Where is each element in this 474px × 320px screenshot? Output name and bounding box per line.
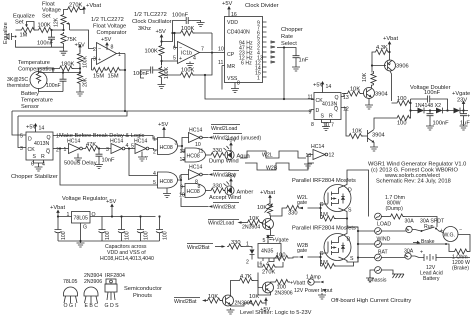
svg-text:1M: 1M: [20, 33, 28, 39]
brake contact: [445, 243, 447, 245]
Q6 collector up to 4.7K: [231, 281, 239, 297]
svg-text:100: 100: [397, 96, 407, 102]
resistor R12 100K left vertical: [145, 42, 165, 61]
svg-text:+5V: +5V: [101, 37, 111, 43]
resistor R25 1M gate-source 2: [320, 257, 354, 269]
+5V arrow gates: [158, 122, 168, 135]
svg-text:23V: 23V: [457, 98, 467, 104]
wire output: [105, 54, 126, 112]
svg-text:10K: 10K: [362, 72, 368, 82]
svg-text:+5V: +5V: [158, 122, 168, 128]
svg-text:12V Power Input: 12V Power Input: [294, 288, 333, 294]
ground Q3: [370, 145, 378, 151]
svg-text:S: S: [348, 208, 352, 214]
svg-text:Brake: Brake: [421, 239, 435, 245]
resistor R7 15M: [106, 67, 122, 72]
select arrows: [271, 41, 275, 63]
svg-text:+5V: +5V: [226, 174, 236, 180]
ground: [322, 125, 330, 131]
svg-text:100: 100: [125, 231, 131, 240]
svg-text:R: R: [329, 114, 333, 120]
svg-text:+: +: [420, 250, 423, 256]
svg-text:gate: gate: [297, 248, 307, 254]
svg-text:Comparator: Comparator: [97, 30, 127, 36]
svg-text:7: 7: [201, 47, 204, 53]
wire Q out: [53, 136, 158, 140]
capacitor C6 100nF top: [411, 90, 448, 111]
svg-text:Battery: Battery: [423, 276, 440, 282]
IC U3b 4013N: [314, 93, 341, 120]
resistor R20 10K: [348, 129, 364, 139]
wire Q into gate: [154, 138, 158, 140]
svg-text:6: 6: [31, 162, 34, 168]
inverter U4c HC14: [131, 139, 149, 163]
svg-text:+Vgate: +Vgate: [272, 238, 289, 244]
svg-text:3: 3: [93, 57, 96, 63]
resistor R13 100K bottom vertical: [159, 66, 170, 79]
resistor R11 100K top: [179, 30, 195, 35]
inverter U4a HC14: [64, 139, 83, 154]
svg-text:3904: 3904: [375, 92, 388, 98]
+Vbat arrow: [50, 205, 65, 218]
svg-text:IC1b: IC1b: [181, 51, 192, 57]
svg-text:Battery: Battery: [21, 91, 39, 97]
svg-text:100nF: 100nF: [424, 90, 441, 96]
wire base/emitter: [362, 136, 375, 145]
ground 1nF: [292, 65, 300, 71]
+5V arrow LED: [226, 138, 236, 152]
svg-text:10K: 10K: [257, 205, 267, 211]
label Brake: [413, 239, 435, 245]
op-amp U1a: [93, 43, 121, 65]
node doubler left: [410, 99, 412, 118]
thermistor TH1: [30, 68, 63, 92]
connector J2 dump: [375, 213, 382, 220]
svg-text:3: 3: [175, 141, 178, 147]
svg-text:8: 8: [198, 184, 201, 190]
wire WIND to brake contact: [358, 243, 445, 245]
+5V arrow opamp: [101, 37, 111, 50]
resistor R17 10K base: [346, 87, 362, 97]
svg-text:4.3K: 4.3K: [376, 45, 388, 51]
node: [160, 60, 162, 62]
resistor R21 47K: [83, 142, 100, 151]
capacitor C14 100: [156, 217, 169, 242]
resistor R4 270K: [66, 7, 82, 12]
svg-text:78L05: 78L05: [63, 279, 78, 285]
wire node: [51, 29, 64, 31]
svg-text:7: 7: [331, 123, 334, 129]
ground Q2: [365, 103, 373, 109]
svg-text:1nF: 1nF: [299, 58, 309, 64]
svg-text:Rate: Rate: [281, 34, 293, 40]
svg-text:330: 330: [231, 240, 241, 246]
wire D in: [311, 110, 314, 112]
pin 5 +Vgate: [263, 235, 289, 245]
ground: [76, 90, 84, 96]
svg-text:14: 14: [39, 126, 45, 132]
svg-text:10K: 10K: [350, 87, 360, 93]
IC U6 78L05: [67, 212, 96, 231]
svg-text:+Vbat: +Vbat: [50, 205, 65, 211]
svg-text:100: 100: [397, 121, 407, 127]
wire: [53, 69, 80, 73]
svg-text:270K: 270K: [69, 3, 82, 9]
op-amp U1b: [173, 42, 204, 64]
gate inputs: [60, 149, 158, 186]
svg-text:3906: 3906: [396, 64, 409, 70]
capacitor C2 100nF: [60, 76, 67, 92]
svg-text:D: D: [28, 137, 32, 143]
+5V arrow bottom: [260, 298, 270, 314]
resistor R19 100 lower: [396, 115, 412, 126]
svg-text:Schematic Rev: 24 July, 2018: Schematic Rev: 24 July, 2018: [376, 179, 451, 185]
svg-text:4.7K: 4.7K: [240, 274, 252, 280]
svg-text:5: 5: [173, 56, 176, 62]
svg-text:Set: Set: [42, 14, 51, 20]
svg-text:100nF: 100nF: [172, 13, 189, 19]
U5c out wire: [178, 180, 186, 195]
svg-text:4: 4: [153, 171, 156, 177]
svg-text:+: +: [179, 56, 182, 62]
battery B1 12V: [419, 250, 470, 262]
svg-text:WIND: WIND: [377, 237, 391, 243]
pin 11 MR wire: [218, 60, 225, 90]
capacitor C10 100 electrolytic: [55, 225, 68, 241]
svg-text:1: 1: [67, 212, 70, 218]
resistor R2 100K: [37, 27, 53, 32]
fuse F2 30A: [358, 253, 419, 262]
ground: [35, 165, 43, 171]
diode D3: [454, 108, 469, 114]
svg-text:Q̅: Q̅: [334, 106, 338, 113]
svg-text:Clock Oscillator: Clock Oscillator: [132, 19, 172, 25]
svg-text:Chopper: Chopper: [281, 27, 303, 33]
wire lower fb: [162, 53, 315, 101]
svg-text:Chassis: Chassis: [368, 278, 387, 284]
Q5 emitter to +Vgate / collector down: [258, 273, 274, 296]
resistor R8 180K: [58, 66, 74, 71]
svg-text:D: D: [347, 237, 351, 243]
svg-text:1/2 TLC2272: 1/2 TLC2272: [134, 12, 167, 18]
svg-text:Sensor: Sensor: [21, 104, 39, 110]
svg-text:−: −: [179, 45, 182, 51]
svg-text:3: 3: [20, 146, 23, 152]
wire base: [372, 62, 392, 102]
svg-text:500uS Delay: 500uS Delay: [64, 161, 97, 167]
+5V arrow: [106, 199, 116, 217]
svg-text:W2L: W2L: [262, 153, 273, 159]
wires reg: [58, 217, 156, 242]
svg-text:100nF: 100nF: [37, 41, 54, 47]
svg-text:Select: Select: [281, 41, 297, 47]
transistor Q1 2N3906: [385, 60, 396, 71]
svg-text:(Brake): (Brake): [452, 266, 469, 272]
node: [98, 147, 100, 149]
svg-text:HC14: HC14: [189, 165, 202, 171]
svg-text:100: 100: [144, 231, 150, 240]
pin 8 VSS ground: [231, 81, 240, 93]
pins 6 4: [263, 258, 274, 262]
LED D4 Dump: [224, 146, 235, 160]
svg-text:Parallel IRF2804 Mosfets: Parallel IRF2804 Mosfets: [292, 178, 356, 184]
wire noninv input: [92, 59, 97, 71]
svg-text:LOAD: LOAD: [377, 222, 391, 228]
svg-text:7: 7: [145, 156, 148, 162]
label +Vbatt / 1 Amp fuse: [290, 275, 324, 287]
resistor R22 330: [206, 148, 226, 158]
ground: [77, 241, 85, 247]
pins S R to ground: [34, 160, 44, 165]
svg-text:16: 16: [231, 12, 237, 18]
svg-text:1N4148 X2: 1N4148 X2: [415, 103, 441, 109]
svg-text:HC14: HC14: [110, 139, 123, 145]
capacitor C3 100nF feedback: [173, 17, 202, 33]
svg-text:20K: 20K: [83, 77, 89, 87]
wire Q to R17: [341, 94, 346, 97]
svg-text:1: 1: [153, 137, 156, 143]
+5V arrow: [75, 43, 85, 53]
svg-text:100: 100: [105, 231, 111, 240]
inverter U4d HC14: [189, 128, 203, 149]
resistor R37 10K to +5V: [231, 298, 267, 307]
ground: [460, 124, 468, 130]
mosfet M1 IRF2804: [320, 185, 353, 214]
svg-text:Float Voltage: Float Voltage: [93, 24, 126, 30]
connector J1 equalize jack: [7, 33, 17, 40]
resistor R14 100K lower fb: [179, 72, 195, 77]
svg-text:+: +: [98, 57, 101, 63]
svg-text:Run: Run: [424, 224, 434, 230]
svg-text:11: 11: [198, 149, 203, 155]
capacitor C12 100: [118, 217, 131, 242]
svg-text:S: S: [321, 114, 325, 120]
inverter U4e HC14: [189, 165, 203, 186]
svg-text:gate: gate: [297, 200, 307, 206]
svg-text:+Vbat: +Vbat: [86, 3, 101, 9]
diode D2 1N4148: [436, 108, 454, 114]
IC U3a 4013N: [26, 132, 53, 160]
svg-text:Q: Q: [47, 135, 51, 141]
wire CK in: [311, 99, 314, 101]
waveform W2B: [245, 163, 314, 172]
waveform W2L: [240, 151, 306, 159]
svg-text:+: +: [440, 228, 443, 234]
svg-text:5: 5: [131, 144, 134, 150]
svg-text:10K: 10K: [208, 294, 218, 300]
svg-text:CD4040N: CD4040N: [227, 30, 250, 36]
capacitor C4 100nF bottom: [144, 67, 162, 74]
svg-text:HC14: HC14: [311, 144, 324, 150]
svg-text:HC08: HC08: [160, 179, 173, 185]
fuse F1 30A: [358, 226, 421, 232]
ground: [426, 124, 434, 130]
capacitor C7 100nF mid: [427, 111, 450, 127]
potentiometer R1 1M: [20, 22, 36, 33]
svg-text:100nF: 100nF: [133, 71, 150, 77]
transistor Q6 2N3904: [223, 295, 234, 306]
svg-text:30A: 30A: [404, 249, 414, 255]
resistor R24 1M gate-source: [320, 208, 347, 221]
ground rail: [58, 240, 160, 242]
svg-text:Chopper Stabilizer: Chopper Stabilizer: [11, 174, 58, 180]
svg-text:6 Hz: 6 Hz: [241, 61, 252, 67]
bus M1.S/M2.D node: [354, 227, 358, 262]
wire A comparator to D input: [12, 110, 311, 112]
label Wind2Bat arrow: [209, 171, 240, 179]
connector J3 LOAD: [375, 222, 392, 235]
svg-text:100K: 100K: [181, 68, 194, 74]
svg-text:100K: 100K: [164, 66, 170, 79]
svg-text:Level Shifter: Logic to 5-23V: Level Shifter: Logic to 5-23V: [240, 310, 312, 316]
svg-text:2: 2: [246, 260, 249, 266]
svg-text:CK: CK: [28, 147, 36, 153]
svg-text:1: 1: [118, 52, 121, 58]
svg-text:HC14: HC14: [189, 128, 202, 134]
transistor Q4 2N3904: [260, 219, 274, 230]
+5V arrow: [222, 1, 237, 18]
svg-text:O: O: [92, 212, 96, 218]
wire to opamp inv input: [70, 30, 95, 49]
wire B left drop to 4013 CK: [18, 116, 26, 148]
package TO-92 #1: [64, 287, 78, 303]
svg-text:Dump Wind: Dump Wind: [209, 159, 239, 165]
svg-text:10: 10: [179, 193, 185, 199]
AND gate U5a HC08: [153, 137, 178, 156]
wire 6 input from R11 node: [175, 33, 178, 48]
svg-text:100K: 100K: [145, 49, 158, 55]
mosfet M2 IRF2804: [320, 234, 355, 263]
svg-text:14: 14: [326, 84, 332, 90]
opto LED: [241, 247, 255, 260]
+5V arrow: [26, 123, 44, 132]
svg-text:Wind2Bat: Wind2Bat: [187, 245, 210, 251]
svg-text:4N35: 4N35: [261, 249, 274, 255]
label Wind2Bat overlined: [187, 244, 226, 252]
AND gate U5d HC08: [179, 184, 206, 199]
svg-text:Q̅: Q̅: [46, 148, 50, 155]
svg-text:10nF: 10nF: [102, 158, 115, 164]
svg-text:1M: 1M: [320, 260, 328, 266]
svg-text:5: 5: [263, 238, 266, 244]
AND gate U5b HC08: [180, 148, 206, 163]
wire Q5 to gate line: [272, 280, 274, 282]
svg-text:1/2 TLC2272: 1/2 TLC2272: [91, 17, 124, 23]
chassis wires: [370, 270, 393, 276]
svg-text:+5V: +5V: [26, 125, 36, 131]
svg-text:+Vbat: +Vbat: [260, 190, 275, 196]
svg-text:13: 13: [180, 149, 186, 155]
label Wind2Load (unused): [209, 134, 262, 142]
resistor R28 10K: [246, 216, 262, 225]
svg-text:2N3906: 2N3906: [84, 279, 102, 285]
capacitor C8 1uF electrolytic: [460, 111, 470, 127]
svg-text:Wind2Bat: Wind2Bat: [174, 299, 197, 305]
svg-text:Off-board High Current Circuit: Off-board High Current Circuitry: [331, 298, 411, 304]
svg-text:3Khz: 3Khz: [138, 26, 151, 32]
svg-text:W2B: W2B: [266, 166, 278, 172]
svg-text:thermistor: thermistor: [7, 83, 30, 89]
svg-text:D: D: [316, 108, 320, 114]
wire feedback: [173, 33, 213, 51]
svg-text:100: 100: [276, 253, 286, 259]
ground stub HC14a: [77, 154, 79, 157]
svg-text:100K: 100K: [38, 23, 51, 29]
svg-text:12: 12: [329, 153, 335, 159]
wire thermistor top: [39, 68, 81, 92]
ground Q4: [270, 228, 272, 233]
svg-text:9: 9: [180, 185, 183, 191]
resistor R34 4.7K: [238, 274, 263, 288]
svg-text:HC14: HC14: [67, 139, 80, 145]
ground feedback: [197, 21, 205, 27]
svg-text:O G I: O G I: [64, 303, 76, 309]
svg-text:100nF: 100nF: [433, 121, 450, 127]
svg-text:12: 12: [180, 157, 186, 163]
resistor R15 4.3K: [374, 45, 390, 55]
svg-text:S: S: [350, 256, 354, 262]
pin 10 CP wire from oscillator: [218, 47, 225, 53]
svg-text:47K: 47K: [86, 142, 96, 148]
pin stubs right Q1-Q12: [255, 21, 267, 82]
node: [79, 67, 81, 69]
resistor R23 330: [206, 184, 226, 194]
svg-text:78L05: 78L05: [74, 216, 89, 222]
svg-text:−: −: [459, 228, 462, 234]
wire osc: [141, 61, 178, 83]
resistor R30 330: [285, 205, 301, 216]
M1 drain wire: [339, 170, 369, 217]
+Vbat arrow: [383, 36, 398, 49]
label Wind2Bat overlined bottom: [181, 198, 239, 211]
svg-text:330: 330: [213, 184, 223, 190]
M2 drain wire: [339, 227, 359, 237]
wire collector/emitter: [369, 85, 374, 103]
wire: [16, 29, 38, 31]
svg-text:10K: 10K: [249, 216, 259, 222]
svg-text:Wind2Bat: Wind2Bat: [213, 205, 236, 211]
svg-text:+5V: +5V: [226, 138, 236, 144]
ground U5c: [166, 188, 168, 192]
svg-text:MR: MR: [227, 64, 235, 70]
svg-text:3904: 3904: [372, 133, 385, 139]
svg-text:Equalize: Equalize: [3, 22, 9, 44]
svg-text:CP: CP: [227, 52, 235, 58]
+Vbat arrow: [82, 3, 101, 14]
transistor Q3 2N3904 (no circle): [368, 129, 375, 142]
svg-text:4013N: 4013N: [34, 141, 50, 147]
generator W.G.: [440, 227, 462, 242]
wire B: [18, 111, 127, 116]
resistor R10 20K vertical: [77, 69, 88, 88]
svg-text:+5V: +5V: [75, 43, 85, 49]
svg-text:2N3906: 2N3906: [275, 291, 293, 297]
connector J6 chassis: [375, 267, 382, 274]
ground chassis left: [366, 276, 374, 282]
svg-text:1: 1: [257, 76, 260, 82]
svg-text:8: 8: [237, 81, 240, 87]
wire brake resistor: [446, 244, 453, 252]
opto U7 4N35: [258, 244, 281, 259]
wire osc output: [200, 52, 223, 54]
AND gate U5c HC08: [153, 171, 182, 188]
svg-text:Semiconductor: Semiconductor: [124, 286, 162, 292]
svg-text:270K: 270K: [262, 270, 275, 276]
svg-text:13: 13: [306, 153, 312, 159]
package TO-92 #2: [84, 287, 98, 303]
svg-text:Amber: Amber: [237, 190, 254, 196]
potentiometer R29 10K: [257, 202, 273, 215]
